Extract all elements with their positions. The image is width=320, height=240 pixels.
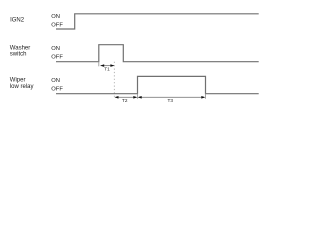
svg-text:low relay: low relay xyxy=(10,84,34,90)
svg-text:OFF: OFF xyxy=(51,54,63,60)
dashed reference line washer fall xyxy=(113,62,115,99)
signal Wiper low relay waveform xyxy=(56,76,259,93)
dimension arrow T2 xyxy=(115,96,138,99)
svg-text:T3: T3 xyxy=(168,98,174,103)
extension line wiper rise xyxy=(137,94,139,99)
svg-text:T2: T2 xyxy=(122,98,128,103)
svg-text:ON: ON xyxy=(51,46,60,52)
dimension arrow T3 xyxy=(138,96,206,99)
svg-text:T1: T1 xyxy=(104,67,110,72)
svg-text:Washer: Washer xyxy=(10,45,30,51)
svg-text:OFF: OFF xyxy=(51,86,63,92)
svg-text:switch: switch xyxy=(10,52,27,58)
svg-text:ON: ON xyxy=(51,14,60,20)
signal IGN2 waveform xyxy=(56,14,259,29)
svg-text:Wiper: Wiper xyxy=(10,77,26,83)
signal Washer switch waveform xyxy=(56,45,259,62)
svg-text:OFF: OFF xyxy=(51,22,63,28)
extension line wiper fall xyxy=(205,94,207,99)
dimension arrow T1 xyxy=(100,64,114,67)
extension line washer rise xyxy=(98,62,100,67)
svg-text:IGN2: IGN2 xyxy=(10,17,25,23)
svg-text:ON: ON xyxy=(51,78,60,84)
